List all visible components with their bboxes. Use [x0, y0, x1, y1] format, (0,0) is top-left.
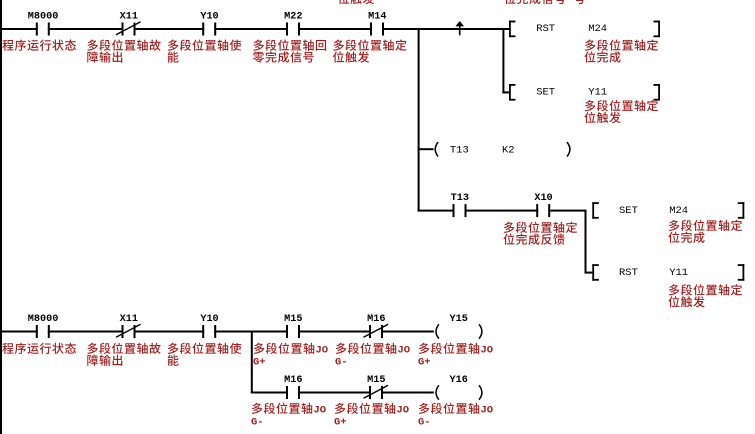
wire branch vertical x418 — [418, 29, 420, 212]
wire rung5 seg1 — [251, 392, 288, 394]
wire rung5 seg2 — [298, 392, 371, 394]
label X10: 定位完成反馈 — [503, 222, 577, 245]
contact Y10 (NO) — [200, 12, 218, 36]
svg-text:M14: M14 — [368, 12, 386, 23]
svg-text:JO: JO — [398, 345, 411, 357]
instruction SET Y11 — [509, 84, 660, 101]
coil Y16 open paren — [436, 385, 439, 399]
label Y10 — [168, 39, 242, 62]
label Y11 (RST) — [668, 284, 742, 307]
wire rung1 seg4 — [214, 28, 288, 30]
wire rung4 seg6 — [381, 331, 434, 333]
label Y11 (SET) — [584, 100, 658, 123]
label M15 rung5: JOG+ — [334, 403, 409, 429]
svg-text:X11: X11 — [120, 314, 138, 325]
timer coil T13 close paren — [567, 142, 570, 156]
svg-text:T13: T13 — [450, 144, 469, 156]
svg-text:M8000: M8000 — [28, 314, 59, 325]
contact M15 (NO) — [284, 314, 302, 338]
wire vertical to RST Y11 — [585, 211, 587, 274]
label M24 (RST) — [584, 39, 658, 62]
label M16: JOG- — [335, 343, 410, 369]
coil Y15 close paren — [479, 324, 482, 338]
svg-text:RST: RST — [619, 267, 638, 279]
svg-text:SET: SET — [619, 205, 638, 217]
svg-text:M15: M15 — [284, 314, 302, 325]
svg-text:G-: G- — [251, 416, 264, 428]
wire branch vertical x251 — [251, 332, 253, 394]
wire rung4 seg5 — [298, 331, 371, 333]
instruction RST Y11 — [592, 264, 744, 281]
svg-text:M24: M24 — [669, 205, 688, 217]
wire stub to RST Y11 — [585, 272, 593, 274]
contact M22 (NO) — [284, 12, 302, 36]
wire stub to SET Y11 — [502, 91, 509, 93]
label Y10 rung4 — [168, 343, 242, 366]
svg-text:Y11: Y11 — [588, 87, 607, 99]
wire rung1 seg2 — [48, 28, 124, 30]
cut-off label fragment right end — [574, 0, 585, 4]
contact M16 (NC) — [364, 314, 389, 338]
svg-text:JO: JO — [397, 405, 410, 417]
contact M14 (NO) — [368, 12, 386, 36]
label X11 — [87, 39, 160, 62]
label Y15: JOG+ — [418, 343, 493, 369]
svg-text:G+: G+ — [334, 416, 347, 428]
label M8000: 程序运行状态 — [2, 39, 76, 50]
cut-off label fragment right — [504, 0, 565, 4]
label M24 (SET) — [668, 220, 742, 243]
contact X10 (NO) — [534, 193, 552, 217]
wire rung3 seg3 — [548, 210, 586, 212]
coil Y16 close paren — [479, 385, 482, 399]
svg-text:X10: X10 — [534, 193, 552, 204]
svg-text:M16: M16 — [284, 375, 302, 386]
wire rung4 seg4 — [214, 331, 288, 333]
svg-text:M15: M15 — [367, 375, 385, 386]
label M14 — [333, 39, 407, 62]
wire rung4 seg1 — [2, 331, 38, 333]
wire rung4 seg2 — [48, 331, 124, 333]
contact M15 (NC) — [364, 375, 389, 399]
svg-text:G+: G+ — [418, 356, 431, 368]
svg-text:M22: M22 — [284, 12, 302, 23]
svg-text:G+: G+ — [253, 356, 266, 368]
svg-text:T13: T13 — [451, 193, 469, 204]
wire rung3 seg2 — [465, 210, 539, 212]
svg-text:SET: SET — [536, 87, 555, 99]
cut-off label fragment left — [338, 0, 374, 4]
label M16 rung5: JOG- — [251, 403, 326, 429]
svg-text:Y10: Y10 — [200, 314, 218, 325]
contact M8000 (NO) 程序运行状态 — [28, 12, 59, 36]
wire rung1 seg3 — [134, 28, 205, 30]
contact T13 (NO) — [451, 193, 469, 217]
wire rung1 seg1 — [2, 28, 38, 30]
continuation arrow — [455, 21, 464, 35]
contact M16 (NO) — [284, 375, 302, 399]
svg-text:RST: RST — [536, 23, 555, 35]
label M8000 rung4 — [2, 343, 76, 354]
label X11 rung4 — [87, 343, 160, 366]
svg-text:G-: G- — [335, 356, 348, 368]
contact M8000 (NO) rung4 — [28, 314, 59, 338]
wire vertical to SET Y11 — [502, 29, 504, 94]
timer coil T13 open paren — [435, 142, 438, 156]
contact X11 (NC) rung4 — [116, 314, 141, 338]
svg-text:M16: M16 — [367, 314, 385, 325]
svg-text:K2: K2 — [502, 144, 515, 156]
contact Y10 (NO) rung4 — [200, 314, 218, 338]
wire rung3 seg1 — [418, 210, 455, 212]
svg-text:M8000: M8000 — [28, 12, 59, 23]
svg-text:M24: M24 — [588, 23, 607, 35]
label M15: JOG+ — [253, 343, 328, 369]
svg-text:JO: JO — [316, 345, 329, 357]
label Y16: JOG- — [418, 403, 493, 429]
wire rung1 seg5 — [298, 28, 372, 30]
wire rung4 seg3 — [134, 331, 205, 333]
instruction SET M24 — [592, 202, 744, 219]
contact X11 (NC) — [116, 12, 141, 36]
svg-text:Y10: Y10 — [200, 12, 218, 23]
svg-text:Y16: Y16 — [450, 375, 468, 386]
wire rung1 seg6 — [382, 28, 510, 30]
svg-text:JO: JO — [314, 405, 327, 417]
svg-text:Y11: Y11 — [669, 267, 688, 279]
left power rail — [0, 0, 2, 434]
instruction RST M24 — [509, 21, 660, 38]
coil Y15 open paren — [436, 324, 439, 338]
svg-text:JO: JO — [481, 405, 494, 417]
svg-text:G-: G- — [418, 416, 431, 428]
wire stub to timer T13 — [418, 148, 434, 150]
wire rung5 seg3 — [381, 392, 434, 394]
label M22 — [253, 39, 326, 62]
svg-text:X11: X11 — [120, 12, 138, 23]
svg-text:Y15: Y15 — [450, 314, 468, 325]
svg-text:JO: JO — [481, 345, 494, 357]
